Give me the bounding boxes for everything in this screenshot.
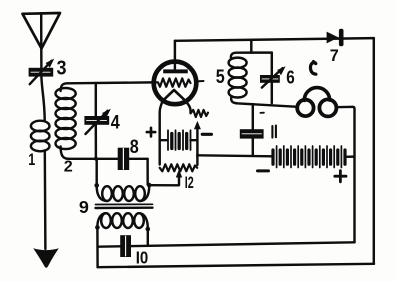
wire B minus lead — [197, 155, 272, 156]
coil L5 tank — [229, 53, 272, 104]
transformer T9 core — [96, 203, 153, 205]
wire drop to tank — [250, 40, 252, 53]
decorative crescent mark — [310, 62, 315, 75]
detector D7 — [327, 29, 344, 47]
ground — [33, 248, 59, 268]
wire cap4 branch lower — [95, 125, 98, 159]
wire phones right lead — [336, 107, 354, 243]
battery A — [160, 130, 198, 150]
transformer T9 primary — [94, 183, 151, 201]
wire tube right filament leg — [186, 101, 191, 113]
wire bottom rail — [98, 264, 374, 267]
coil L1 — [31, 121, 50, 152]
wire transformer secondary left down to bottom rail — [96, 229, 99, 267]
svg-text:I0: I0 — [136, 247, 149, 267]
wire capacitor 3 to coil 1 — [41, 77, 44, 121]
wire cap8 right corner down to transformer — [146, 159, 149, 185]
variable capacitor C6 — [260, 66, 286, 87]
svg-text:3: 3 — [57, 57, 67, 79]
wire coil2 bottom to capacitor 8 — [69, 158, 148, 160]
rheostat wiper arrow — [194, 121, 201, 129]
svg-text:8: 8 — [130, 137, 139, 158]
wire transformer secondary right down — [147, 231, 149, 246]
label plus A battery — [147, 128, 155, 137]
node junction coil2 bottom / cap4 branch — [94, 157, 98, 161]
svg-text:1: 1 — [28, 151, 35, 169]
svg-text:9: 9 — [79, 197, 89, 217]
capacitor C8 — [118, 148, 130, 170]
label minus A battery — [202, 133, 211, 136]
svg-text:I2: I2 — [185, 174, 194, 192]
decorative dash mark — [260, 112, 264, 114]
wire tank bottom to phones — [236, 103, 297, 107]
battery B — [273, 146, 354, 168]
resistor filament rheostat element — [191, 110, 208, 117]
headphones — [297, 88, 336, 117]
wire outer right vertical — [373, 38, 375, 264]
svg-text:5: 5 — [216, 66, 225, 88]
svg-text:7: 7 — [330, 46, 339, 65]
wire junction down to transformer primary left — [95, 159, 97, 184]
svg-text:2: 2 — [64, 158, 73, 175]
triode tube V — [154, 41, 204, 104]
capacitor C10 — [120, 235, 131, 257]
variable capacitor C4 — [84, 109, 110, 134]
wire cap11 branch upper — [252, 105, 254, 130]
wire tube left filament leg down — [160, 101, 163, 165]
wire coil 1 to ground — [44, 151, 47, 250]
rheostat R12 element — [160, 164, 198, 171]
wire grid wire coil2 top to tube — [68, 81, 152, 84]
wire cap11 branch lower — [252, 139, 254, 156]
wire tank right side — [271, 53, 273, 104]
svg-text:6: 6 — [286, 68, 295, 88]
wire cap4 branch upper — [95, 83, 97, 116]
transformer T9 secondary — [95, 213, 150, 231]
svg-text:4: 4 — [111, 112, 120, 133]
label plus B battery — [335, 171, 346, 182]
antenna — [23, 13, 61, 49]
rheostat R12 wiper arrow — [176, 169, 182, 177]
label minus B battery — [258, 169, 269, 172]
wire capacitor 10 rail — [98, 242, 355, 246]
label 11 — [272, 126, 276, 138]
coil L2 — [56, 83, 76, 159]
variable capacitor C3 — [29, 59, 55, 85]
wire antenna lead to capacitor 3 — [40, 49, 43, 69]
capacitor C11 — [240, 129, 264, 138]
wire top plate rail — [175, 38, 374, 41]
